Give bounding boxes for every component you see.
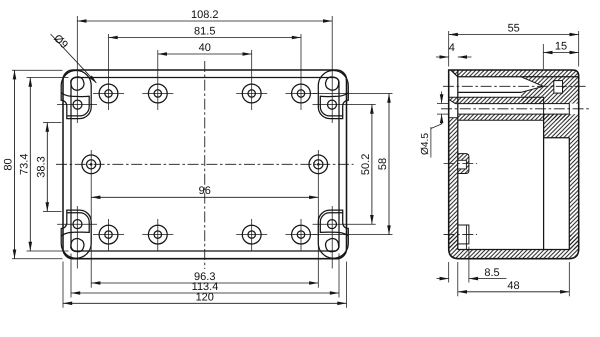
svg-text:58: 58 [377,158,389,170]
svg-text:120: 120 [196,291,214,303]
svg-text:55: 55 [508,23,520,35]
svg-text:48: 48 [507,280,519,292]
svg-text:8.5: 8.5 [484,267,499,279]
svg-text:50.2: 50.2 [360,154,372,175]
svg-text:96: 96 [199,185,211,197]
svg-text:Ø4.5: Ø4.5 [420,133,431,155]
svg-text:4: 4 [449,42,455,54]
svg-text:15: 15 [555,41,567,53]
svg-text:80: 80 [3,158,15,170]
svg-text:81.5: 81.5 [194,26,215,38]
svg-text:40: 40 [199,42,211,54]
svg-text:73.4: 73.4 [18,154,30,175]
svg-text:38.3: 38.3 [35,156,47,177]
svg-text:108.2: 108.2 [191,9,219,21]
